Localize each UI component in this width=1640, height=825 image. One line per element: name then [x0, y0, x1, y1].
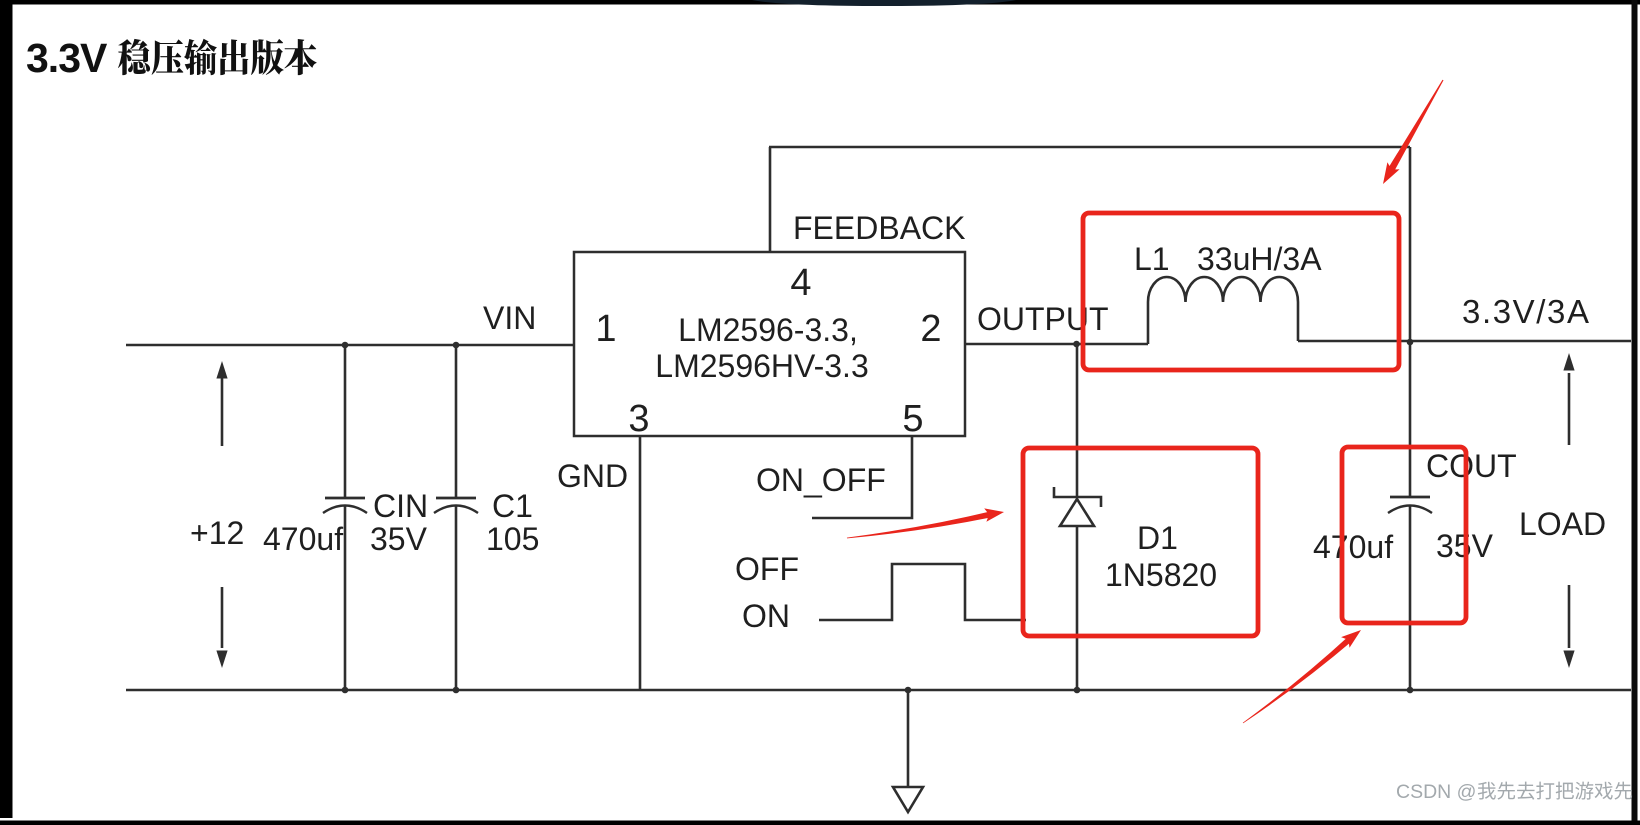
ground symbol triangle [893, 787, 923, 812]
svg-text:ON_OFF: ON_OFF [756, 462, 886, 498]
node junction 3 [1073, 341, 1080, 348]
right border bar [1632, 0, 1638, 825]
wire: input rail +12 to VIN pin1 [126, 344, 574, 347]
wire: feedback right vertical down to output node [1409, 147, 1412, 343]
svg-text:GND: GND [557, 458, 628, 494]
red annotation arrow middle [847, 511, 994, 539]
node junction 7 [905, 687, 912, 694]
svg-text:OFF: OFF [735, 551, 799, 587]
diode D1 wire top [1076, 344, 1079, 496]
title text CJK 稳压输出版本 [118, 39, 150, 75]
svg-text:LM2596HV-3.3: LM2596HV-3.3 [655, 348, 868, 384]
svg-text:D1: D1 [1137, 520, 1178, 556]
node junction 9 [1407, 687, 1414, 694]
svg-text:CIN: CIN [373, 488, 428, 524]
wire: inductor to 3.3V output rail right edge [1298, 340, 1631, 343]
wire: bottom ground rail [126, 689, 1631, 692]
capacitor CIN plates [325, 497, 365, 500]
svg-text:4: 4 [790, 262, 811, 304]
node junction 6 [453, 687, 460, 694]
ground stub wire [907, 690, 910, 786]
IC U1 LM2596 regulator body [574, 252, 965, 436]
svg-text:C1: C1 [492, 488, 533, 524]
wire: feedback top horizontal [769, 146, 1410, 149]
svg-text:470uf: 470uf [263, 521, 343, 557]
svg-text:VIN: VIN [483, 300, 536, 336]
svg-text:ON: ON [742, 598, 790, 634]
+12 down arrow [221, 587, 224, 648]
capacitor CIN wire bottom [344, 506, 347, 690]
wire: feedback vertical from IC pin4 [769, 147, 772, 252]
highlight box around L1 [1083, 213, 1399, 370]
node junction 4 [1407, 339, 1414, 346]
red annotation arrow bottom [1243, 635, 1354, 724]
capacitor C1 wire top [455, 345, 458, 497]
svg-text:3.3V: 3.3V [26, 35, 108, 81]
LOAD up arrow [1568, 373, 1571, 445]
capacitor C1 plates [436, 497, 476, 500]
wire: pin2 OUTPUT to inductor [965, 343, 1148, 346]
capacitor COUT plates [1390, 496, 1430, 499]
svg-text:1: 1 [595, 308, 616, 350]
svg-text:LM2596-3.3,: LM2596-3.3, [678, 312, 858, 348]
svg-text:3.3V/3A: 3.3V/3A [1462, 293, 1591, 330]
top border bar [0, 0, 1640, 5]
svg-text:COUT: COUT [1426, 448, 1517, 484]
svg-text:1N5820: 1N5820 [1105, 557, 1217, 593]
svg-text:2: 2 [920, 308, 941, 350]
highlight box around COUT [1342, 447, 1466, 623]
svg-text:5: 5 [902, 398, 923, 440]
svg-text:FEEDBACK: FEEDBACK [793, 210, 965, 246]
diode D1 wire bottom [1076, 527, 1079, 690]
diode D1 triangle [1060, 499, 1094, 526]
svg-text:3: 3 [628, 398, 649, 440]
left border bar [0, 0, 13, 818]
capacitor C1 wire bottom [455, 506, 458, 690]
+12 up arrow [221, 378, 224, 446]
red annotation arrow top right [1386, 80, 1444, 176]
node junction 1 [342, 342, 349, 349]
svg-text:CSDN @: CSDN @ [1396, 781, 1476, 803]
node junction 8 [1074, 687, 1081, 694]
highlight box around D1 [1023, 448, 1258, 636]
node junction 5 [342, 687, 349, 694]
inductor L1 coil [1148, 277, 1298, 344]
svg-text:LOAD: LOAD [1519, 506, 1606, 542]
svg-text:+12: +12 [190, 515, 244, 551]
svg-text:105: 105 [486, 521, 539, 557]
diode D1 schottky cathode bar [1054, 487, 1101, 507]
bottom border bar [0, 821, 1640, 825]
capacitor COUT wire top [1409, 343, 1412, 496]
wire: pin5 ON_OFF bracket [812, 436, 912, 518]
svg-text:L133uH/3A: L133uH/3A [1134, 241, 1322, 277]
LOAD down arrow [1568, 585, 1571, 648]
top bar navy segment [752, 0, 1016, 6]
watermark CJK 我先去打把游戏先 [1478, 782, 1496, 800]
pulse waveform [819, 564, 1026, 620]
node junction 2 [453, 342, 460, 349]
svg-text:470uf: 470uf [1313, 529, 1393, 565]
capacitor CIN wire top [344, 345, 347, 497]
svg-text:OUTPUT: OUTPUT [977, 301, 1109, 337]
wire: pin3 GND to bottom rail [639, 436, 642, 690]
svg-text:35V: 35V [370, 521, 428, 557]
capacitor COUT wire bottom [1409, 506, 1412, 690]
